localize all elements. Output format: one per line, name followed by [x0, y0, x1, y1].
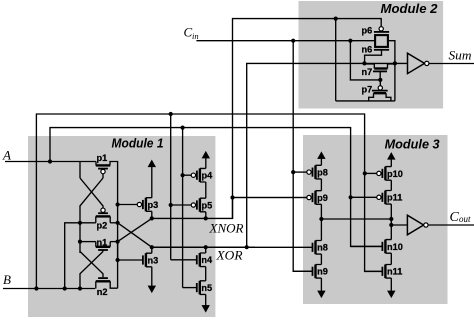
- junction Cin to TG gate riser: [348, 39, 352, 43]
- cross diagonal p1 gate-to-left: [80, 178, 103, 223]
- p5 drain column: [205, 212, 207, 219]
- svg-text:p3: p3: [148, 200, 159, 210]
- svg-text:p4: p4: [202, 171, 214, 181]
- svg-text:p6: p6: [362, 25, 373, 35]
- transistor n7: [362, 64, 395, 80]
- cross diagonal left-to-n2 gate: [80, 252, 103, 278]
- svg-text:n2: n2: [97, 287, 108, 297]
- svg-text:n7: n7: [362, 67, 373, 77]
- wire p2 right to rail: [110, 222, 117, 224]
- label Cout: [450, 210, 472, 225]
- transistor n8: [152, 241, 328, 255]
- module2 left riser: [335, 19, 337, 101]
- inverter U1 (Sum): [408, 53, 429, 73]
- left rail bottom segment: [117, 242, 119, 260]
- junction right column node2: [389, 223, 393, 227]
- svg-text:n5: n5: [201, 283, 212, 293]
- n4 top column: [205, 247, 207, 253]
- p2 source drain stubs: [96, 216, 110, 222]
- svg-text:XNOR: XNOR: [208, 221, 243, 236]
- transistor p2: [96, 208, 110, 231]
- p11 drain column: [390, 204, 392, 240]
- cross diagonal n1 gate-to-left: [80, 252, 103, 289]
- wire Cout output: [428, 224, 474, 226]
- Module 1 box: [28, 136, 215, 317]
- svg-text:p8: p8: [317, 168, 328, 178]
- svg-text:Module 2: Module 2: [381, 1, 438, 16]
- ground arrow: [202, 294, 209, 312]
- junction XOR n4 column: [204, 245, 208, 249]
- wire XOR: [152, 246, 313, 248]
- junction B riser bottom: [34, 286, 38, 290]
- transistor p8: [293, 165, 328, 179]
- p8-p9 column: [320, 179, 322, 191]
- transistor p11: [351, 191, 403, 205]
- junction n3 top XOR node: [150, 245, 154, 249]
- p1 gate lead: [102, 174, 104, 179]
- wire p9 drain to right column: [321, 218, 391, 220]
- p3 drain column: [151, 211, 153, 218]
- svg-text:Module 3: Module 3: [385, 136, 440, 151]
- wire p2 left to riser x64.7: [65, 223, 96, 289]
- svg-text:A: A: [2, 148, 11, 163]
- transistor p6: [362, 25, 390, 35]
- svg-text:p10: p10: [387, 169, 403, 179]
- cross diagonal A-to-p2 gate: [80, 178, 103, 208]
- svg-text:n10: n10: [387, 242, 403, 252]
- transistor n2: [96, 278, 110, 297]
- wire to cout inverter: [391, 224, 407, 226]
- ground arrow: [388, 278, 395, 297]
- junction Cin riser top: [291, 39, 295, 43]
- junction n7 p7 gate node: [378, 78, 382, 82]
- ground arrow: [318, 278, 325, 297]
- riser Cin down to module3: [293, 41, 312, 272]
- VDD supply arrow: [388, 153, 395, 167]
- svg-text:Sum: Sum: [449, 48, 472, 63]
- svg-text:B: B: [3, 272, 11, 287]
- Module 2 box: [299, 1, 444, 109]
- junction left rail on B: [78, 286, 82, 290]
- svg-text:out: out: [459, 214, 471, 224]
- svg-text:n1: n1: [97, 237, 108, 247]
- junction n6 gate on XOR wire: [362, 61, 366, 65]
- junction p2 left: [78, 221, 82, 225]
- junction XNOR riser: [230, 195, 234, 199]
- wire internal node to p5 drain: [152, 198, 233, 219]
- transistor n9: [293, 265, 328, 279]
- module2 bottom rail: [336, 100, 395, 102]
- riser XOR to module2: [247, 63, 408, 247]
- wire B input: [3, 288, 95, 290]
- svg-text:n9: n9: [317, 267, 328, 277]
- transistor p7: [362, 80, 391, 101]
- p10 gate tap junction: [363, 171, 367, 175]
- svg-text:p9: p9: [317, 193, 328, 203]
- riser Cin to n7 p7 gates: [350, 41, 380, 80]
- transistor p9: [232, 191, 328, 205]
- transistor n4: [171, 253, 213, 267]
- svg-text:in: in: [192, 31, 199, 41]
- n8-n9 column: [320, 254, 322, 264]
- wire XNOR: [232, 197, 308, 199]
- n3 top column: [151, 247, 153, 253]
- junction right column node1: [389, 217, 393, 221]
- n1 source drain stubs: [96, 242, 110, 247]
- junction p5 drain: [204, 216, 208, 220]
- p3 column top: [151, 197, 153, 199]
- VDD supply arrow: [148, 160, 155, 198]
- riser B to p5 n4 gates: [170, 114, 172, 260]
- svg-text:n4: n4: [201, 255, 213, 265]
- transistor p1 stubs + rail corner: [96, 162, 118, 289]
- p4 gate tap junction: [181, 173, 185, 177]
- left rail segment n1-X: [79, 242, 81, 253]
- svg-text:n8: n8: [317, 243, 328, 253]
- p11 gate tap junction: [349, 195, 353, 199]
- VDD supply arrow: [318, 152, 325, 165]
- transistor p10: [365, 167, 403, 181]
- svg-text:p5: p5: [202, 200, 213, 210]
- p10-p11 column: [390, 180, 392, 190]
- junction n1 left: [78, 240, 82, 244]
- svg-text:n11: n11: [387, 267, 402, 277]
- transmission gate channel square p6/n6: [375, 35, 388, 47]
- n10-n11 column: [390, 253, 392, 264]
- diagonal n1 node to p3 drain: [118, 218, 152, 241]
- svg-text:Module 1: Module 1: [112, 136, 164, 151]
- transistor n3: [118, 253, 159, 267]
- transistor p3: [118, 198, 159, 212]
- svg-text:p7: p7: [362, 84, 373, 94]
- svg-text:n3: n3: [148, 255, 159, 265]
- transistor n11: [365, 265, 403, 279]
- junction riser64 on B: [63, 286, 67, 290]
- transistor p5: [171, 198, 213, 212]
- p5 gate tap junction: [169, 203, 173, 207]
- p8 gate tap junction: [291, 170, 295, 174]
- riser XNOR node to module2 top: [233, 19, 382, 219]
- transistor p4: [183, 168, 214, 182]
- wire Cin horizontal: [196, 40, 375, 42]
- n3 gate tap junction: [116, 258, 120, 262]
- transistor n1: [96, 237, 110, 250]
- junction A riser on A wire: [48, 159, 52, 163]
- n2 source drain stubs: [96, 281, 118, 288]
- svg-text:C: C: [450, 210, 460, 225]
- p3 gate tap junction: [116, 202, 120, 206]
- junction n1 right: [116, 240, 120, 244]
- ground arrow: [148, 267, 155, 293]
- wire n1 right: [110, 241, 117, 243]
- junction module2 top wire: [334, 17, 338, 21]
- wire A feed riser x50: [50, 128, 383, 247]
- svg-text:p2: p2: [97, 221, 108, 231]
- svg-text:p1: p1: [97, 153, 108, 163]
- svg-text:p11: p11: [387, 193, 402, 203]
- p9 drain column: [320, 204, 322, 240]
- transistor n5: [183, 281, 213, 295]
- VDD supply arrow: [202, 152, 209, 169]
- Module 3 box: [303, 135, 448, 304]
- riser A to p4 n5 gates: [182, 128, 184, 288]
- wire Sum output: [429, 63, 474, 65]
- junction A riser182: [181, 126, 185, 130]
- junction p2 right rail: [116, 221, 120, 225]
- wire A input: [5, 161, 96, 163]
- diagonal p2 node to n3 top: [118, 223, 152, 247]
- left rail segment p2-n1: [79, 223, 81, 242]
- wire B feed riser x36: [36, 114, 382, 289]
- p4-p5 column: [205, 182, 207, 198]
- transistor n10: [351, 240, 403, 254]
- transistor p1: [96, 153, 110, 174]
- junction p9 drain node: [319, 217, 323, 221]
- input label Cin: [184, 25, 199, 42]
- junction B riser170: [169, 112, 173, 116]
- wire n1 left: [80, 241, 96, 243]
- svg-text:n6: n6: [362, 44, 373, 54]
- junction XOR riser: [245, 245, 249, 249]
- transistor n6: [362, 44, 390, 63]
- n1 gate lead: [102, 250, 104, 252]
- module2 right riser: [388, 41, 395, 101]
- junction inverter input node: [393, 61, 397, 65]
- inverter U2 (Cout): [407, 215, 428, 235]
- junction p3 drain: [150, 216, 154, 220]
- cross couple upper left rail: [79, 162, 81, 179]
- svg-text:XOR: XOR: [215, 248, 242, 263]
- n4-n5 column: [205, 267, 207, 281]
